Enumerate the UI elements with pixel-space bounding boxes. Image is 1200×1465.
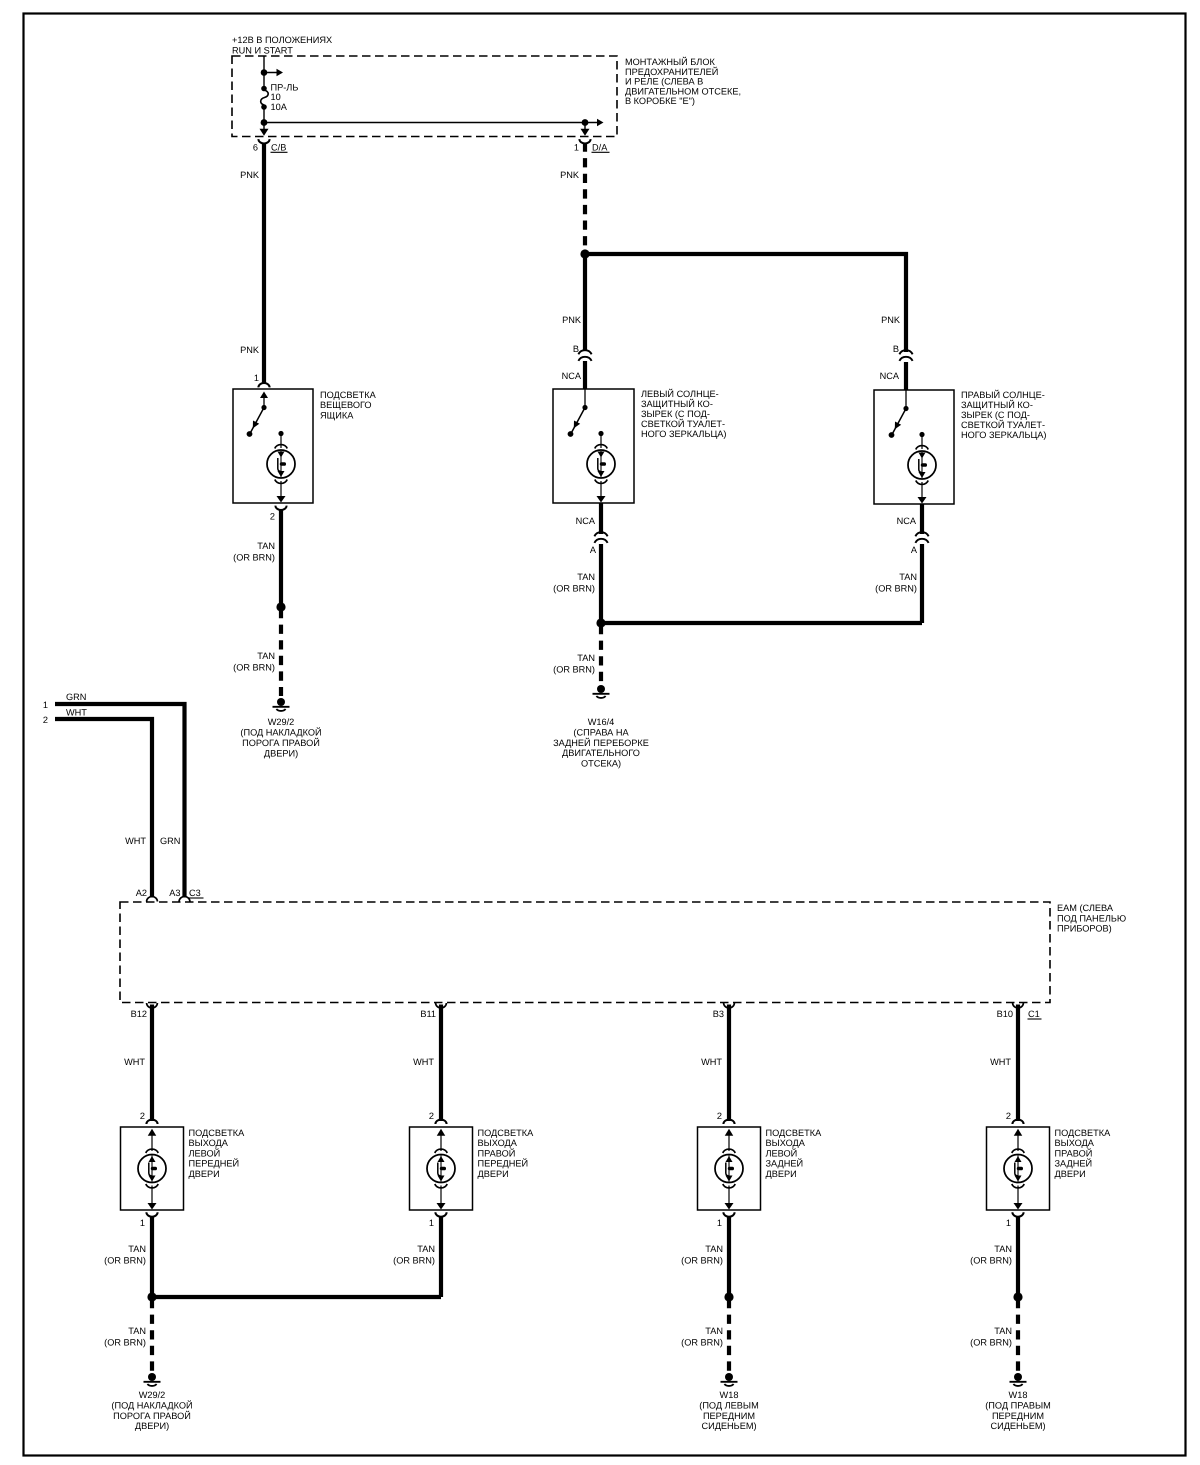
ground W18 right: [1010, 1373, 1027, 1386]
wire PNK right visor lower: [904, 362, 908, 390]
wire label WHT vertical: [125, 836, 146, 846]
svg-text:ДВЕРИ: ДВЕРИ: [478, 1169, 509, 1179]
svg-text:1: 1: [1006, 1218, 1011, 1228]
svg-text:TAN: TAN: [577, 653, 595, 663]
ground W29/2: [144, 1373, 161, 1386]
svg-text:2: 2: [43, 715, 48, 725]
pin 1 door lamp: [717, 1212, 735, 1228]
svg-text:+12В В ПОЛОЖЕНИЯХ: +12В В ПОЛОЖЕНИЯХ: [232, 35, 332, 45]
svg-text:W29/2: W29/2: [139, 1390, 166, 1400]
svg-text:СИДЕНЬЕМ): СИДЕНЬЕМ): [701, 1421, 756, 1431]
svg-text:СИДЕНЬЕМ): СИДЕНЬЕМ): [990, 1421, 1045, 1431]
door lamp unit label: [189, 1128, 246, 1179]
wire label PNK: [240, 345, 260, 355]
svg-text:(ПОД НАКЛАДКОЙ: (ПОД НАКЛАДКОЙ: [111, 1399, 192, 1410]
door lamp: [715, 1129, 743, 1210]
wire label WHT: [413, 1057, 434, 1067]
wire TAN door lamp: [439, 1217, 443, 1297]
pin 1 D/A label: [574, 143, 610, 153]
right visor lamp: [908, 432, 936, 504]
svg-text:TAN: TAN: [705, 1326, 723, 1336]
fuse/relay box (монтажный блок): [232, 56, 617, 137]
svg-text:ДВЕРИ: ДВЕРИ: [766, 1169, 797, 1179]
wire label WHT: [66, 708, 87, 718]
svg-text:ВЫХОДА: ВЫХОДА: [478, 1138, 518, 1148]
pin 6 C/B label: [253, 143, 288, 153]
svg-text:ПР-ЛЬ: ПР-ЛЬ: [271, 83, 299, 93]
svg-text:NCA: NCA: [576, 516, 596, 526]
glovebox switch: [247, 392, 268, 437]
svg-text:ПОДСВЕТКА: ПОДСВЕТКА: [1055, 1128, 1112, 1138]
svg-text:RUN И START: RUN И START: [232, 46, 293, 56]
splice node: [724, 1292, 733, 1301]
svg-text:TAN: TAN: [257, 541, 275, 551]
svg-text:TAN: TAN: [705, 1244, 723, 1254]
svg-text:B: B: [893, 344, 899, 354]
wire PNK dashed D/A: [583, 143, 587, 252]
ground label W29/2: [240, 717, 321, 759]
ground label W29/2: [111, 1390, 192, 1431]
svg-text:A: A: [590, 545, 597, 555]
wire label TAN: [681, 1244, 723, 1266]
svg-text:ПОДСВЕТКА: ПОДСВЕТКА: [189, 1128, 246, 1138]
right visor label: [961, 389, 1046, 440]
node feed tap with arrow: [261, 69, 283, 77]
wire TAN door lamp: [150, 1217, 154, 1297]
svg-text:TAN: TAN: [994, 1244, 1012, 1254]
ground W18 left: [721, 1373, 738, 1386]
svg-text:ЗАДНЕЙ: ЗАДНЕЙ: [766, 1158, 804, 1169]
svg-text:2: 2: [140, 1111, 145, 1121]
svg-text:WHT: WHT: [413, 1057, 434, 1067]
ground W29/2: [273, 698, 290, 711]
inline connector A left visor: [590, 532, 608, 555]
svg-text:NCA: NCA: [562, 371, 582, 381]
svg-text:ДВЕРИ: ДВЕРИ: [1055, 1169, 1086, 1179]
left visor lamp: [587, 431, 615, 503]
svg-text:2: 2: [717, 1111, 722, 1121]
right visor switch: [889, 390, 909, 438]
svg-text:W29/2: W29/2: [268, 717, 295, 727]
wire TAN dashed to ground: [599, 625, 603, 684]
svg-text:ПРАВОЙ: ПРАВОЙ: [478, 1147, 516, 1158]
ground label W16/4: [553, 717, 649, 769]
wire NCA lower: [599, 503, 603, 623]
door lamp unit box: [698, 1127, 761, 1210]
svg-text:ЗЫРЕК (С ПОД-: ЗЫРЕК (С ПОД-: [961, 410, 1030, 420]
junction node: [582, 119, 589, 126]
svg-text:2: 2: [1006, 1111, 1011, 1121]
svg-text:(OR BRN): (OR BRN): [970, 1256, 1012, 1266]
ground label W18: [699, 1390, 758, 1431]
svg-text:ЛЕВОЙ: ЛЕВОЙ: [766, 1147, 798, 1158]
wire label TAN: [104, 1244, 146, 1266]
svg-text:1: 1: [43, 700, 48, 710]
wire TAN door lamp: [1016, 1217, 1020, 1297]
svg-text:ПОДСВЕТКА: ПОДСВЕТКА: [766, 1128, 823, 1138]
door lamp unit label: [478, 1128, 535, 1179]
svg-text:(СПРАВА НА: (СПРАВА НА: [573, 727, 629, 737]
wire TAN dashed to ground: [1016, 1299, 1020, 1372]
fuse box label: [625, 56, 741, 106]
svg-text:ДВЕРИ): ДВЕРИ): [135, 1421, 169, 1431]
junction node: [261, 119, 268, 126]
svg-text:(ПОД ПРАВЫМ: (ПОД ПРАВЫМ: [985, 1400, 1051, 1410]
wire label TAN: [233, 651, 275, 673]
pin B10: [997, 1003, 1024, 1019]
ground label W18: [985, 1390, 1051, 1431]
svg-text:ПРЕДОХРАНИТЕЛЕЙ: ПРЕДОХРАНИТЕЛЕЙ: [625, 66, 718, 77]
svg-text:PNK: PNK: [240, 345, 260, 355]
wire label PNK: [560, 170, 580, 180]
svg-text:6: 6: [253, 143, 258, 153]
wire label TAN: [393, 1244, 435, 1266]
wire label NCA: [562, 371, 582, 381]
svg-text:C1: C1: [1028, 1009, 1040, 1019]
svg-text:WHT: WHT: [124, 1057, 145, 1067]
svg-text:ЗАЩИТНЫЙ КО-: ЗАЩИТНЫЙ КО-: [961, 399, 1033, 410]
left visor unit box: [553, 389, 634, 503]
svg-text:C3: C3: [189, 888, 201, 898]
pin 1 glovebox: [254, 373, 270, 387]
svg-text:PNK: PNK: [560, 170, 580, 180]
splice node: [596, 618, 605, 627]
svg-text:B: B: [573, 344, 579, 354]
wire label NCA: [576, 516, 596, 526]
inline connector A right visor: [911, 532, 929, 555]
svg-text:TAN: TAN: [994, 1326, 1012, 1336]
wire label PNK: [881, 315, 901, 325]
EAM label: [1057, 903, 1126, 934]
svg-text:W16/4: W16/4: [588, 717, 615, 727]
wire WHT: [439, 1005, 443, 1122]
wire label TAN: [970, 1326, 1012, 1348]
left visor switch: [568, 389, 588, 437]
svg-text:1: 1: [140, 1218, 145, 1228]
inline connector B right visor: [893, 344, 913, 361]
svg-text:ДВЕРИ): ДВЕРИ): [264, 749, 298, 759]
svg-text:И РЕЛЕ (СЛЕВА В: И РЕЛЕ (СЛЕВА В: [625, 77, 703, 87]
svg-text:PNK: PNK: [240, 170, 260, 180]
svg-text:TAN: TAN: [128, 1244, 146, 1254]
wire TAN glovebox: [279, 510, 283, 607]
svg-text:ЛЕВОЙ: ЛЕВОЙ: [189, 1147, 221, 1158]
connector C3 label: [189, 888, 204, 898]
svg-text:В КОРОБКЕ "Е"): В КОРОБКЕ "Е"): [625, 96, 695, 106]
svg-text:ЛЕВЫЙ СОЛНЦЕ-: ЛЕВЫЙ СОЛНЦЕ-: [641, 388, 719, 399]
door lamp unit label: [766, 1128, 823, 1179]
door lamp unit box: [410, 1127, 473, 1210]
wire label NCA: [897, 516, 917, 526]
pin label 1: [43, 700, 48, 710]
splice node: [1013, 1292, 1022, 1301]
wire WHT: [1016, 1005, 1020, 1122]
wire label WHT: [990, 1057, 1011, 1067]
door lamp unit box: [121, 1127, 184, 1210]
wire label TAN: [553, 653, 595, 675]
wire label GRN: [66, 692, 86, 702]
svg-text:1: 1: [717, 1218, 722, 1228]
svg-text:ПЕРЕДНЕЙ: ПЕРЕДНЕЙ: [478, 1158, 529, 1169]
right visor unit box: [874, 390, 954, 504]
svg-text:TAN: TAN: [257, 651, 275, 661]
svg-text:МОНТАЖНЫЙ БЛОК: МОНТАЖНЫЙ БЛОК: [625, 56, 715, 67]
pin 2 glovebox: [270, 506, 287, 522]
door lamp unit label: [1055, 1128, 1112, 1179]
wire label WHT: [701, 1057, 722, 1067]
svg-text:(OR BRN): (OR BRN): [970, 1338, 1012, 1348]
svg-text:WHT: WHT: [990, 1057, 1011, 1067]
wire bus: [264, 122, 585, 124]
svg-text:(OR BRN): (OR BRN): [681, 1338, 723, 1348]
svg-text:(OR BRN): (OR BRN): [104, 1256, 146, 1266]
pin 6 C/B exit: [258, 123, 269, 144]
door lamp unit box: [987, 1127, 1050, 1210]
glovebox lamp: [267, 431, 295, 503]
svg-text:NCA: NCA: [897, 516, 917, 526]
wire label TAN: [233, 541, 275, 563]
wire PNK glovebox: [262, 143, 266, 385]
left visor label: [641, 388, 726, 439]
svg-text:СВЕТКОЙ ТУАЛЕТ-: СВЕТКОЙ ТУАЛЕТ-: [961, 419, 1045, 430]
wire GRN input 1: [55, 704, 185, 898]
pin B12: [131, 1003, 158, 1019]
svg-text:GRN: GRN: [66, 692, 86, 702]
svg-text:TAN: TAN: [577, 572, 595, 582]
svg-text:ПРИБОРОВ): ПРИБОРОВ): [1057, 924, 1112, 934]
pin A3: [169, 888, 190, 902]
glovebox light unit box: [233, 389, 313, 503]
wire TAN dashed to ground: [727, 1299, 731, 1372]
svg-text:TAN: TAN: [417, 1244, 435, 1254]
fuse ПР-ЛЬ 10 10A: [261, 86, 269, 110]
pin 2 door lamp: [717, 1111, 735, 1124]
arrow bus out: [585, 119, 604, 127]
svg-text:NCA: NCA: [880, 371, 900, 381]
svg-text:D/A: D/A: [592, 143, 608, 153]
svg-text:ПРАВОЙ: ПРАВОЙ: [1055, 1147, 1093, 1158]
svg-text:TAN: TAN: [128, 1326, 146, 1336]
svg-text:СВЕТКОЙ ТУАЛЕТ-: СВЕТКОЙ ТУАЛЕТ-: [641, 418, 725, 429]
svg-text:(ПОД НАКЛАДКОЙ: (ПОД НАКЛАДКОЙ: [240, 727, 321, 738]
pin label 2: [43, 715, 48, 725]
svg-text:(OR BRN): (OR BRN): [233, 553, 275, 563]
svg-text:A3: A3: [169, 888, 180, 898]
wire TAN join front doors: [152, 1295, 441, 1299]
svg-text:ПРАВЫЙ СОЛНЦЕ-: ПРАВЫЙ СОЛНЦЕ-: [961, 389, 1045, 400]
connector C1 label: [1028, 1009, 1042, 1019]
pin 2 door lamp: [140, 1111, 158, 1124]
svg-text:(OR BRN): (OR BRN): [875, 584, 917, 594]
ground W16/4: [593, 685, 610, 698]
svg-text:PNK: PNK: [562, 315, 582, 325]
wire NCA right visor lower: [920, 504, 924, 623]
svg-text:B3: B3: [713, 1009, 724, 1019]
pin 1 door lamp: [140, 1212, 158, 1228]
svg-text:ЗЫРЕК (С ПОД-: ЗЫРЕК (С ПОД-: [641, 409, 710, 419]
svg-text:ВЕЩЕВОГО: ВЕЩЕВОГО: [320, 400, 372, 410]
inline connector B left visor: [573, 344, 592, 361]
wire label TAN: [104, 1326, 146, 1348]
pin 2 door lamp: [1006, 1111, 1024, 1124]
svg-text:(OR BRN): (OR BRN): [104, 1338, 146, 1348]
wire WHT: [150, 1005, 154, 1122]
svg-text:WHT: WHT: [66, 708, 87, 718]
wire label TAN: [875, 572, 917, 594]
pin B11: [420, 1003, 446, 1019]
svg-text:ЗАЩИТНЫЙ КО-: ЗАЩИТНЫЙ КО-: [641, 398, 713, 409]
EAM module box: [120, 902, 1050, 1003]
wire PNK to right visor: [585, 254, 906, 352]
svg-text:(OR BRN): (OR BRN): [393, 1256, 435, 1266]
wire feed: [263, 56, 265, 88]
svg-text:A2: A2: [136, 888, 147, 898]
pin 1 D/A exit: [579, 123, 590, 144]
pin 2 door lamp: [429, 1111, 447, 1124]
svg-text:A: A: [911, 545, 918, 555]
wire label WHT: [124, 1057, 145, 1067]
wire TAN join visors: [601, 621, 922, 625]
svg-text:2: 2: [270, 512, 275, 522]
wire fuse to bus: [263, 107, 265, 123]
door lamp: [427, 1129, 455, 1210]
wire label GRN vertical: [160, 836, 180, 846]
svg-text:ВЫХОДА: ВЫХОДА: [1055, 1138, 1095, 1148]
svg-text:(OR BRN): (OR BRN): [681, 1256, 723, 1266]
svg-text:10А: 10А: [271, 102, 288, 112]
svg-text:B11: B11: [420, 1009, 436, 1019]
wire label NCA: [880, 371, 900, 381]
svg-text:(OR BRN): (OR BRN): [233, 663, 275, 673]
splice node: [147, 1292, 156, 1301]
svg-text:ВЫХОДА: ВЫХОДА: [189, 1138, 229, 1148]
pin 1 door lamp: [1006, 1212, 1024, 1228]
svg-text:W18: W18: [720, 1390, 739, 1400]
svg-text:(ПОД ЛЕВЫМ: (ПОД ЛЕВЫМ: [699, 1400, 758, 1410]
svg-text:W18: W18: [1009, 1390, 1028, 1400]
door lamp: [138, 1129, 166, 1210]
svg-text:(OR BRN): (OR BRN): [553, 665, 595, 675]
svg-text:НОГО ЗЕРКАЛЬЦА): НОГО ЗЕРКАЛЬЦА): [641, 429, 726, 439]
pin A2: [136, 888, 158, 902]
svg-text:10: 10: [271, 92, 281, 102]
svg-text:ПОД ПАНЕЛЬЮ: ПОД ПАНЕЛЬЮ: [1057, 913, 1126, 923]
pin 1 door lamp: [429, 1212, 447, 1228]
svg-text:ПОДСВЕТКА: ПОДСВЕТКА: [478, 1128, 535, 1138]
svg-text:ПОДСВЕТКА: ПОДСВЕТКА: [320, 390, 377, 400]
wire WHT: [727, 1005, 731, 1122]
wire label PNK: [562, 315, 582, 325]
svg-text:GRN: GRN: [160, 836, 180, 846]
door lamp: [1004, 1129, 1032, 1210]
svg-text:TAN: TAN: [899, 572, 917, 582]
svg-text:(OR BRN): (OR BRN): [553, 584, 595, 594]
svg-text:ПЕРЕДНИМ: ПЕРЕДНИМ: [992, 1411, 1044, 1421]
wire WHT input 2: [55, 719, 152, 898]
svg-text:ЗАДНЕЙ: ЗАДНЕЙ: [1055, 1158, 1093, 1169]
svg-text:2: 2: [429, 1111, 434, 1121]
svg-text:WHT: WHT: [125, 836, 146, 846]
svg-text:B12: B12: [131, 1009, 147, 1019]
svg-text:ОТСЕКА): ОТСЕКА): [581, 759, 621, 769]
svg-text:1: 1: [429, 1218, 434, 1228]
splice node: [580, 249, 589, 258]
svg-text:PNK: PNK: [881, 315, 901, 325]
svg-text:1: 1: [254, 373, 259, 383]
svg-text:ДВИГАТЕЛЬНОГО: ДВИГАТЕЛЬНОГО: [562, 748, 640, 758]
svg-text:ДВИГАТЕЛЬНОМ ОТСЕКЕ,: ДВИГАТЕЛЬНОМ ОТСЕКЕ,: [625, 86, 741, 96]
svg-text:ВЫХОДА: ВЫХОДА: [766, 1138, 806, 1148]
svg-text:ПОРОГА ПРАВОЙ: ПОРОГА ПРАВОЙ: [242, 737, 320, 748]
wire label TAN: [681, 1326, 723, 1348]
wire label TAN: [970, 1244, 1012, 1266]
wire TAN dashed to ground: [150, 1299, 154, 1372]
glovebox light label: [320, 390, 377, 420]
pin B3: [713, 1003, 735, 1019]
wire TAN dashed to ground: [279, 609, 283, 696]
svg-text:ЗАДНЕЙ ПЕРЕБОРКЕ: ЗАДНЕЙ ПЕРЕБОРКЕ: [553, 737, 649, 748]
svg-text:НОГО ЗЕРКАЛЬЦА): НОГО ЗЕРКАЛЬЦА): [961, 430, 1046, 440]
svg-text:1: 1: [574, 143, 579, 153]
wire PNK left visor: [583, 254, 587, 389]
svg-text:WHT: WHT: [701, 1057, 722, 1067]
wire label TAN: [553, 572, 595, 594]
svg-text:C/B: C/B: [271, 143, 286, 153]
svg-text:ЯЩИКА: ЯЩИКА: [320, 410, 354, 420]
svg-text:B10: B10: [997, 1009, 1013, 1019]
svg-text:ЕАМ (СЛЕВА: ЕАМ (СЛЕВА: [1057, 903, 1114, 913]
svg-text:ПОРОГА ПРАВОЙ: ПОРОГА ПРАВОЙ: [113, 1410, 191, 1421]
wire label PNK: [240, 170, 260, 180]
svg-text:ДВЕРИ: ДВЕРИ: [189, 1169, 220, 1179]
splice node: [276, 602, 285, 611]
net label +12V in RUN and START: [232, 35, 332, 56]
svg-text:ПЕРЕДНИМ: ПЕРЕДНИМ: [703, 1411, 755, 1421]
fuse value label: [271, 83, 299, 112]
wire TAN door lamp: [727, 1217, 731, 1297]
svg-text:ПЕРЕДНЕЙ: ПЕРЕДНЕЙ: [189, 1158, 240, 1169]
